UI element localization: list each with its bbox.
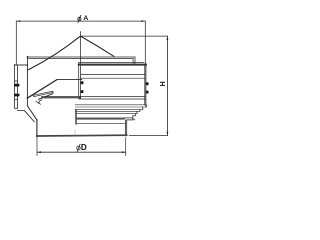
hatch band 2 ticks — [77, 118, 125, 120]
inner wall bottom blob — [78, 97, 81, 99]
svg-text:H: H — [160, 81, 167, 86]
center bolt upper — [81, 81, 84, 84]
louver line 2 — [81, 77, 145, 79]
drum top thick edge — [79, 64, 146, 66]
band line y109.4 — [75, 108, 143, 110]
inner pipe wall — [78, 63, 80, 97]
right bolt upper — [145, 82, 148, 85]
drum right wall — [145, 64, 146, 108]
arrowhead H bottom — [167, 132, 169, 136]
drum top-left stub — [15, 64, 28, 66]
left wall rung y81 — [15, 80, 18, 82]
left wall rung — [15, 99, 18, 101]
band line y113.6 — [75, 113, 137, 115]
cone roof left edge — [28, 36, 80, 70]
arrowhead phi-D right — [122, 151, 126, 153]
inner funnel horizontal — [57, 79, 82, 81]
drum top thin line — [79, 61, 144, 63]
extension line phi-A left — [15, 21, 17, 65]
extension line H top — [81, 35, 168, 37]
vane lower strip — [39, 94, 53, 100]
pipe left wall — [36, 120, 38, 136]
arrowhead phi-A right — [141, 20, 145, 22]
drum left wall — [15, 65, 18, 108]
extension line H bottom — [129, 134, 167, 136]
step edge x142.8 — [142, 107, 144, 109]
extension line phi-D left — [36, 137, 38, 156]
rim left vertical — [26, 56, 28, 106]
funnel outer diagonal — [27, 106, 37, 120]
step bottom y119.9 — [127, 119, 133, 121]
dimension line phi-A — [16, 20, 145, 22]
rim right edge — [133, 57, 135, 64]
sleeve wall left — [75, 109, 76, 124]
hatch band 2 right step — [125, 118, 135, 120]
step edge x139.9 — [139, 109, 141, 111]
step edge x135.3 — [134, 114, 136, 116]
vane upper strip — [33, 91, 53, 97]
band line y104.8 — [75, 104, 146, 106]
hatch band 1 ticks — [42, 97, 79, 99]
dimension line phi-D — [37, 151, 126, 153]
inner funnel diagonal — [27, 80, 57, 99]
band line y99 — [79, 98, 145, 100]
arrowhead phi-A left — [16, 20, 20, 22]
band line y123.6 — [77, 123, 125, 125]
svg-text:D: D — [81, 143, 87, 152]
rim top line — [27, 56, 135, 58]
pipe bottom edge — [37, 134, 127, 137]
arrowhead phi-D left — [37, 151, 41, 153]
step edge x132.8 — [132, 116, 134, 120]
right bolt lower — [145, 91, 148, 94]
cone roof right edge — [81, 36, 114, 56]
label phi(D) symbol — [77, 144, 80, 151]
left bolt lower — [14, 94, 20, 97]
funnel inner diagonal — [24, 110, 34, 121]
band line y96.6 — [42, 96, 145, 98]
extension line phi-A right — [144, 21, 146, 63]
extension line phi-D right — [125, 138, 127, 156]
svg-text:A: A — [83, 15, 88, 22]
curl steep mark — [36, 101, 40, 104]
arrowhead H top — [167, 36, 169, 40]
label phi(A) symbol — [78, 15, 81, 22]
rolled edge curl — [39, 100, 42, 103]
step tread y115.8 — [133, 115, 136, 117]
band line y107 — [75, 106, 146, 108]
stub corner dots — [14, 64, 16, 66]
pipe corner dot — [36, 135, 38, 137]
center bolt lower — [81, 90, 84, 93]
cone centerline — [80, 32, 82, 97]
pipe right wall — [125, 120, 126, 136]
lip right edge — [145, 105, 147, 107]
step edge x137 — [136, 111, 138, 113]
louver line 1 — [81, 73, 145, 75]
rim bottom line — [29, 58, 134, 60]
sleeve faint seam — [74, 130, 76, 135]
dimension line H — [166, 36, 168, 136]
band line y111.4 — [75, 110, 140, 112]
left bolt upper — [14, 84, 20, 87]
funnel horizontal stub — [18, 109, 25, 111]
rim corner dot — [27, 56, 29, 58]
hatch band 2 top — [77, 117, 125, 119]
